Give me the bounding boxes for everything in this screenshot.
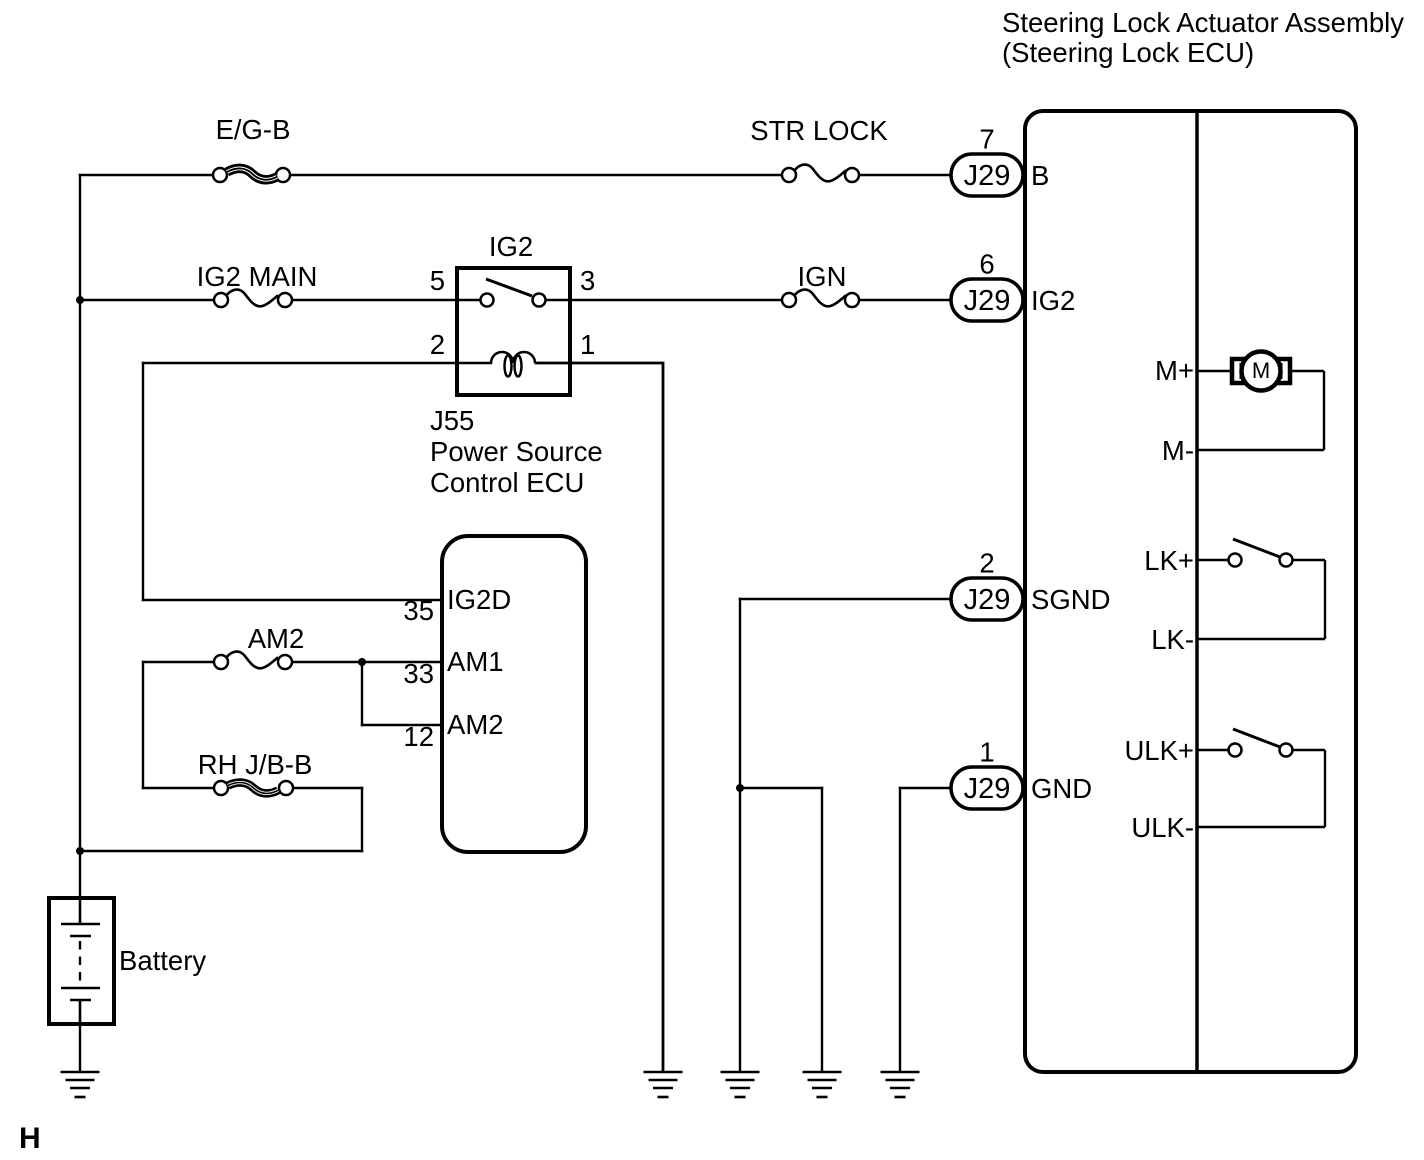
svg-text:(Steering Lock ECU): (Steering Lock ECU): [1002, 37, 1254, 68]
svg-text:Steering Lock Actuator Assembl: Steering Lock Actuator Assembly: [1002, 7, 1404, 38]
svg-text:1: 1: [580, 329, 595, 360]
svg-text:AM2: AM2: [248, 623, 305, 654]
svg-text:J55: J55: [430, 405, 474, 436]
svg-text:LK-: LK-: [1151, 624, 1194, 655]
svg-text:M+: M+: [1155, 355, 1194, 386]
svg-text:6: 6: [979, 249, 994, 280]
svg-text:SGND: SGND: [1031, 584, 1110, 615]
svg-text:J29: J29: [964, 285, 1011, 317]
svg-text:STR LOCK: STR LOCK: [750, 115, 888, 146]
svg-text:33: 33: [403, 658, 434, 689]
svg-text:AM2: AM2: [447, 709, 504, 740]
svg-text:J29: J29: [964, 773, 1011, 805]
svg-text:35: 35: [403, 595, 434, 626]
svg-text:7: 7: [979, 124, 994, 155]
svg-text:IG2 MAIN: IG2 MAIN: [197, 261, 318, 292]
svg-text:E/G-B: E/G-B: [216, 114, 291, 145]
svg-text:IGN: IGN: [798, 261, 847, 292]
svg-text:ULK-: ULK-: [1131, 812, 1194, 843]
svg-text:B: B: [1031, 160, 1049, 191]
svg-text:Battery: Battery: [119, 945, 206, 976]
svg-text:Control ECU: Control ECU: [430, 467, 584, 498]
svg-text:H: H: [19, 1122, 41, 1155]
svg-text:J29: J29: [964, 584, 1011, 616]
svg-text:IG2: IG2: [1031, 285, 1075, 316]
svg-text:GND: GND: [1031, 773, 1092, 804]
svg-text:M-: M-: [1162, 435, 1194, 466]
svg-text:3: 3: [580, 265, 595, 296]
svg-text:Power Source: Power Source: [430, 436, 603, 467]
svg-text:ULK+: ULK+: [1124, 735, 1194, 766]
svg-text:AM1: AM1: [447, 646, 504, 677]
svg-text:2: 2: [430, 329, 445, 360]
svg-text:2: 2: [979, 548, 994, 579]
svg-text:1: 1: [979, 737, 994, 768]
svg-text:RH J/B-B: RH J/B-B: [198, 749, 313, 780]
svg-text:IG2: IG2: [489, 231, 533, 262]
svg-text:M: M: [1252, 358, 1270, 383]
svg-text:IG2D: IG2D: [447, 584, 511, 615]
svg-text:LK+: LK+: [1144, 545, 1194, 576]
svg-text:5: 5: [430, 265, 445, 296]
svg-text:12: 12: [403, 721, 434, 752]
svg-text:J29: J29: [964, 160, 1011, 192]
